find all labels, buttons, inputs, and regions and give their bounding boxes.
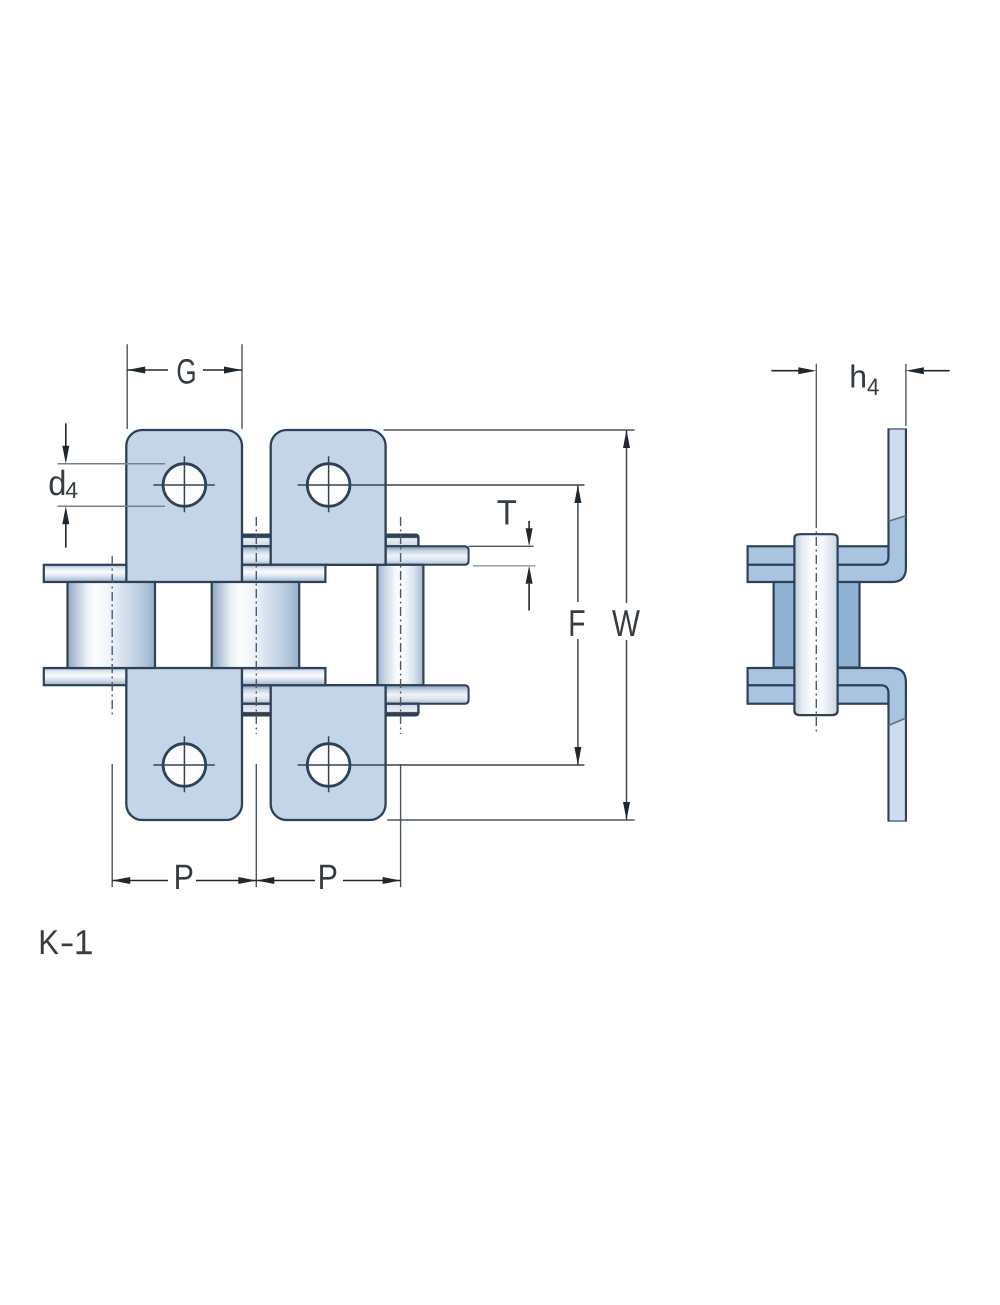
svg-text:F: F <box>568 602 585 644</box>
centerline (right view) <box>815 364 817 519</box>
bent attachment plate, lower <box>748 668 906 821</box>
dimension P (first span): label <box>174 858 194 897</box>
dimension h4: dimension line and arrows <box>771 370 799 372</box>
hole lower-left crosshair <box>153 764 214 766</box>
svg-text:h: h <box>849 359 867 395</box>
dimension W: label <box>612 602 640 644</box>
roller 2 <box>212 582 300 668</box>
dimension W: dimension line and arrows <box>626 430 628 603</box>
lower-right attachment plate <box>271 685 386 820</box>
pin 2 inner-plate bar (top, between plates) <box>239 546 275 565</box>
lower-left attachment plate <box>126 668 242 820</box>
pin (right view) <box>794 534 837 715</box>
inner link block (right view) <box>774 582 860 668</box>
centerline pin 2 <box>255 517 257 734</box>
dimension d4: tangent extension lines <box>58 463 166 465</box>
svg-text:P: P <box>174 858 194 897</box>
pin 3 bushing cylinder <box>377 565 423 685</box>
svg-text:4: 4 <box>65 477 78 503</box>
pin 2 cap (top, between plates) <box>239 535 275 547</box>
inner plate edge bar, bottom (right view) <box>748 685 889 704</box>
svg-text:1: 1 <box>74 924 92 962</box>
K-1 caption <box>38 924 59 962</box>
hole lower-right crosshair merged with F extension line <box>298 764 585 766</box>
pin 2 cap (bottom, between plates) <box>239 704 275 716</box>
outer link plate edge view, top left segment <box>44 565 127 582</box>
pin 3 inner-plate bar (top) <box>386 546 469 565</box>
dimension d4: label <box>48 464 66 503</box>
svg-text:T: T <box>497 494 517 533</box>
svg-text:-: - <box>60 924 75 962</box>
svg-text:G: G <box>176 353 196 392</box>
outer link plate edge view, bottom right segment <box>242 668 325 685</box>
upper-left attachment plate <box>126 430 242 582</box>
dimension G: label <box>176 353 196 392</box>
upper bent plate: flat face highlight above bend line <box>890 430 905 522</box>
pin 3 inner-plate bar (bottom) <box>386 685 469 704</box>
roller 1 <box>68 582 156 668</box>
lower bent plate: flat face highlight below bend line <box>890 718 905 821</box>
dimension d4: arrows <box>65 423 67 446</box>
svg-text:W: W <box>612 602 640 644</box>
dimension F: label <box>568 602 585 644</box>
pin 3 cap (bottom) <box>386 704 419 716</box>
pin 2 inner-plate bar (bottom, between plates) <box>239 685 275 704</box>
dimension G: extension lines <box>126 344 128 429</box>
centerline pin 1 <box>111 556 113 718</box>
upper-right attachment plate <box>271 430 386 565</box>
outer link plate edge view, top right segment <box>242 565 325 582</box>
svg-text:d: d <box>48 464 66 503</box>
dimension G: dimension line and arrows <box>127 369 168 371</box>
lower bent plate: bend boundary line <box>889 718 906 726</box>
hole lower-left circle <box>163 744 206 787</box>
upper bent plate: bend boundary line <box>889 516 906 522</box>
svg-text:4: 4 <box>867 374 879 401</box>
dimension T: arrows <box>528 521 530 529</box>
dimension P (first span): line, arrows <box>112 880 168 882</box>
centerline pin 3 <box>400 517 402 734</box>
hole upper-left circle d4 <box>163 464 206 507</box>
inner plate edge bar, top (right view) <box>748 546 889 565</box>
bent attachment plate, upper <box>748 430 906 583</box>
hole lower-right circle <box>307 744 350 787</box>
dimension F: extension line top (through hole) done above; dimension line <box>577 485 579 602</box>
pin 3 cap (top) <box>386 535 419 547</box>
dimension h4: extension line right <box>905 364 907 426</box>
dimension T: extension lines <box>469 545 534 547</box>
dimension P (second span): label <box>318 858 338 897</box>
dimension W: extension lines <box>384 429 635 431</box>
dimension P (second span): line, arrows <box>256 880 315 882</box>
hole upper-right crosshair merged with F extension line <box>298 484 585 486</box>
svg-text:K: K <box>38 924 59 962</box>
dimension h4: label <box>849 359 867 395</box>
hole upper-left crosshair <box>153 484 214 486</box>
outer link plate edge view, bottom left segment <box>44 668 127 685</box>
dimension P: extension lines <box>111 764 113 887</box>
dimension T: label <box>497 494 517 533</box>
hole upper-right circle <box>307 464 350 507</box>
svg-text:P: P <box>318 858 338 897</box>
